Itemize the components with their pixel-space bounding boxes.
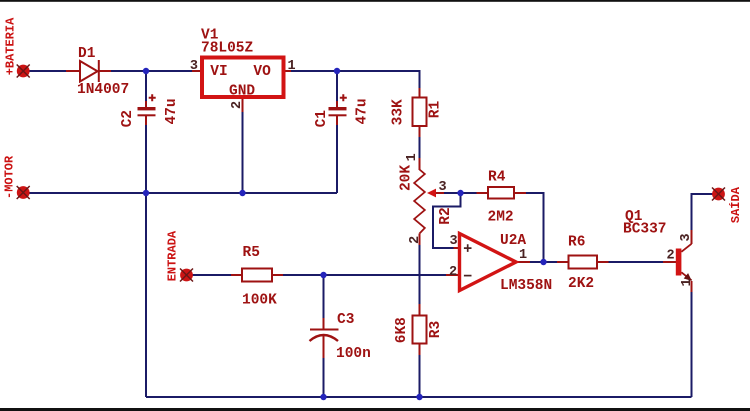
svg-text:R2: R2: [438, 207, 454, 224]
svg-text:1: 1: [288, 59, 296, 74]
capacitor C1: [329, 94, 347, 116]
pin lead R1 bottom: [419, 126, 421, 137]
svg-text:U2A: U2A: [500, 233, 526, 249]
svg-text:3: 3: [679, 233, 694, 241]
pin lead C2 top: [145, 101, 147, 107]
svg-text:SAÍDA: SAÍDA: [728, 186, 743, 223]
svg-text:+BATERIA: +BATERIA: [4, 17, 18, 75]
frame bottom border: [0, 408, 750, 411]
svg-text:2M2: 2M2: [488, 210, 514, 226]
diode D1: [80, 60, 99, 82]
wire +BATERIA to D1: [29, 70, 66, 72]
svg-text:C3: C3: [337, 312, 354, 328]
svg-text:BC337: BC337: [623, 222, 667, 238]
op-amp plus mark: [464, 244, 472, 252]
wire right riser emitter to bus: [691, 292, 693, 397]
wire pot R2 pin2 down across to R3: [419, 245, 421, 304]
svg-text:2: 2: [449, 265, 457, 280]
wire -MOTOR rail: [29, 192, 337, 194]
wire wiper to junction and R4: [444, 192, 477, 194]
pin lead R4 right: [514, 192, 526, 194]
pin lead R5 right: [272, 274, 283, 276]
svg-text:78L05Z: 78L05Z: [201, 41, 254, 57]
pin lead C3 bottom: [323, 336, 325, 358]
potentiometer R2 wiper arrow: [427, 189, 436, 198]
resistor R3 box: [413, 316, 427, 344]
pin lead R5 left: [231, 274, 242, 276]
wire left vertical drop to bus: [145, 193, 147, 397]
pin lead C3 top: [323, 318, 325, 329]
pin lead R4 left: [477, 192, 489, 194]
wire C1 top stem: [336, 71, 338, 101]
svg-text:LM358N: LM358N: [500, 278, 552, 294]
svg-text:100K: 100K: [242, 293, 277, 309]
junction wiper node: [457, 190, 463, 196]
regulator U1 box 78L05Z: [202, 58, 284, 98]
resistor R4 box: [488, 187, 514, 199]
wire collector to SAIDA: [692, 194, 714, 230]
pin lead C2 bottom: [145, 116, 147, 125]
wire R6 to Q1 base: [609, 261, 664, 263]
pin lead R3 bottom: [419, 344, 421, 356]
svg-text:6K8: 6K8: [394, 317, 410, 343]
wire ENTRADA to R5: [192, 274, 231, 276]
svg-text:1: 1: [519, 248, 527, 263]
pin lead pot wiper: [436, 192, 444, 194]
svg-text:R1: R1: [428, 101, 444, 119]
svg-text:VI: VI: [210, 64, 227, 80]
pin lead op-amp pin2: [446, 274, 460, 276]
wire C3 top stem: [323, 275, 325, 318]
junction op-amp output: [540, 259, 546, 265]
svg-text:D1: D1: [78, 46, 96, 62]
svg-text:2: 2: [408, 236, 423, 244]
wire C2 top stem: [145, 71, 147, 101]
capacitor C2: [138, 94, 156, 116]
wire op-amp output to R6: [530, 261, 557, 263]
op-amp U2A triangle: [460, 234, 517, 291]
wire C3 bottom stem: [323, 358, 325, 397]
wire R3 bottom to ground bus: [419, 355, 421, 397]
pin lead C1 top: [336, 101, 338, 107]
svg-text:20K: 20K: [399, 165, 415, 191]
pin lead R6 right: [597, 261, 609, 263]
frame top border: [0, 0, 750, 2]
svg-text:1N4007: 1N4007: [77, 82, 129, 98]
svg-text:ENTRADA: ENTRADA: [166, 230, 180, 281]
pin lead R3 top: [419, 304, 421, 316]
pin lead Q1 collector vertical: [691, 230, 693, 244]
junction R5 C3 node: [320, 272, 326, 278]
wire R5 to op-amp pin2 (junction at C3): [283, 274, 446, 276]
svg-text:-MOTOR: -MOTOR: [3, 155, 17, 199]
pin lead D1 anode: [66, 70, 80, 72]
capacitor C3: [310, 330, 339, 342]
svg-text:GND: GND: [229, 84, 255, 100]
op-amp minus mark: [464, 275, 472, 277]
pin lead V1 pin2: [242, 99, 244, 112]
wire feedback wiper junction to op-amp pin3: [433, 193, 461, 248]
svg-text:1: 1: [405, 153, 420, 161]
svg-text:3: 3: [190, 59, 198, 74]
junction C1 top: [334, 68, 340, 74]
pin lead SAIDA: [713, 193, 716, 195]
wire V1 pin1 to R1 top corner: [291, 71, 420, 88]
svg-text:R3: R3: [428, 321, 444, 338]
pin lead R6 left: [557, 261, 569, 263]
svg-text:VO: VO: [253, 64, 271, 80]
terminal SAIDA: [712, 188, 725, 201]
junction R3 ground: [416, 394, 422, 400]
svg-text:R6: R6: [568, 235, 585, 251]
pin lead op-amp output: [516, 261, 530, 263]
pin lead V1 pin3: [192, 70, 200, 72]
svg-text:C1: C1: [314, 110, 330, 128]
potentiometer R2 zigzag: [414, 170, 425, 234]
svg-text:1: 1: [680, 278, 695, 286]
pin lead R1 top: [419, 88, 421, 98]
resistor R6 box: [569, 256, 598, 269]
junction C2 bottom: [143, 190, 149, 196]
svg-text:47u: 47u: [164, 98, 180, 124]
svg-text:3: 3: [450, 234, 458, 249]
junction C3 ground: [320, 394, 326, 400]
pin lead Q1 emitter vertical: [691, 281, 693, 292]
wire V1 pin2 GND drop: [242, 112, 244, 193]
pin lead V1 pin1: [286, 70, 292, 72]
svg-text:33K: 33K: [391, 99, 407, 125]
svg-text:100n: 100n: [336, 346, 371, 362]
pin lead C1 bottom: [336, 116, 338, 125]
svg-text:C2: C2: [120, 110, 136, 127]
svg-text:2K2: 2K2: [568, 276, 594, 292]
svg-text:2: 2: [230, 101, 245, 109]
transistor Q1: [676, 244, 692, 281]
wire ground bus bottom: [146, 396, 692, 398]
terminal -MOTOR: [17, 186, 30, 199]
terminal ENTRADA: [180, 269, 193, 282]
svg-text:R5: R5: [243, 245, 260, 261]
pin lead pot pin2: [419, 234, 421, 246]
pin lead op-amp pin3: [454, 247, 460, 249]
svg-text:47u: 47u: [355, 98, 371, 124]
svg-text:3: 3: [439, 180, 447, 195]
resistor R1 box: [413, 98, 427, 127]
wire C2 bottom stem: [145, 125, 147, 193]
wire C1 bottom stem: [336, 125, 338, 193]
wire D1 to V1 pin3 (junction at C2): [111, 70, 192, 72]
pin lead Q1 base: [663, 261, 676, 263]
junction V1 GND: [239, 190, 245, 196]
junction C2 top: [143, 68, 149, 74]
wire R4 right to output corner: [526, 193, 544, 262]
svg-text:2: 2: [667, 249, 675, 264]
svg-text:R4: R4: [488, 170, 506, 186]
resistor R5 box: [242, 269, 272, 282]
terminal +BATERIA: [17, 65, 30, 78]
pin lead D1 cathode: [99, 70, 111, 72]
pin lead pot pin1: [419, 158, 421, 170]
wire R1 bottom to pot R2 pin1: [419, 137, 421, 158]
